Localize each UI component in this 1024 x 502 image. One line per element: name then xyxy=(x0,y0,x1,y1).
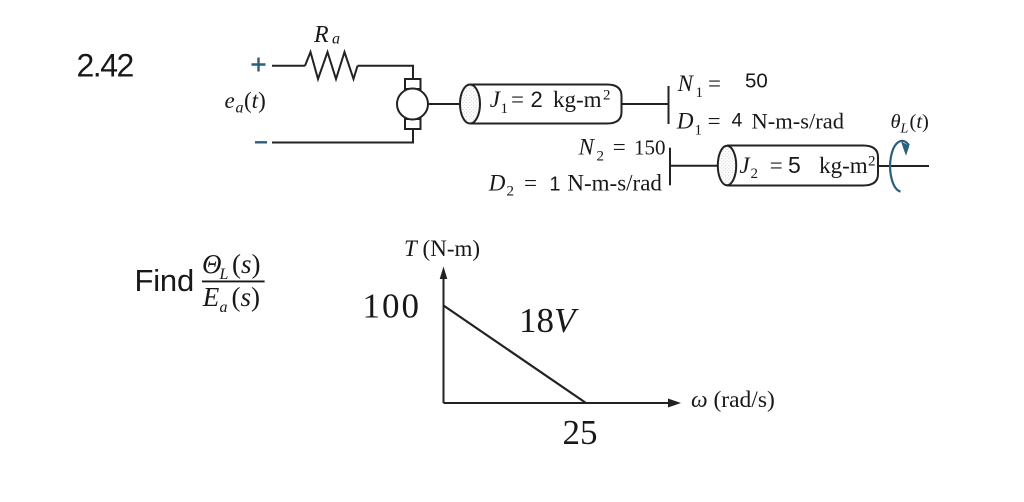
plus terminal xyxy=(252,58,266,72)
svg-text:100: 100 xyxy=(363,287,422,326)
inertia J1 cylinder body xyxy=(470,85,622,124)
motor brush bottom xyxy=(405,119,421,129)
inertia J2 cylinder body xyxy=(727,146,878,186)
svg-text:Find: Find xyxy=(135,263,195,298)
svg-text:N-m-s/rad: N-m-s/rad xyxy=(567,171,662,196)
svg-text:1: 1 xyxy=(549,174,560,196)
svg-text:50: 50 xyxy=(745,69,768,92)
svg-text:2: 2 xyxy=(531,87,543,112)
svg-text:ω (rad/s): ω (rad/s) xyxy=(691,387,775,413)
wire bottom xyxy=(272,129,413,143)
svg-text:D: D xyxy=(676,109,694,134)
svg-text:18V: 18V xyxy=(519,301,579,340)
svg-text:kg-m: kg-m xyxy=(819,153,868,178)
svg-text:N-m-s/rad: N-m-s/rad xyxy=(752,109,844,134)
shaft J1 to gear N1 xyxy=(622,103,669,105)
shaft J2 output xyxy=(878,165,929,167)
graph y axis xyxy=(443,277,445,403)
svg-text:25: 25 xyxy=(563,413,598,452)
motor brush top xyxy=(405,79,421,89)
wire top left xyxy=(272,65,305,67)
svg-text:=: = xyxy=(708,71,721,96)
inertia J1 end face xyxy=(460,85,480,124)
resistor Ra zigzag xyxy=(305,52,358,79)
svg-text:1: 1 xyxy=(501,101,509,117)
svg-text:L: L xyxy=(900,122,909,137)
svg-text:2.42: 2.42 xyxy=(77,48,134,84)
inertia J2 end face xyxy=(718,146,736,186)
svg-text:=: = xyxy=(708,109,721,134)
svg-text:1: 1 xyxy=(696,85,704,101)
svg-text:=: = xyxy=(524,171,537,196)
graph x axis xyxy=(444,402,669,404)
svg-text:1: 1 xyxy=(695,123,703,139)
svg-text:(s): (s) xyxy=(232,249,261,279)
svg-text:2: 2 xyxy=(507,184,515,200)
svg-text:a: a xyxy=(236,100,244,117)
svg-text:2: 2 xyxy=(603,88,611,104)
rotation arrow theta_L xyxy=(890,141,909,192)
svg-text:=: = xyxy=(511,87,524,112)
shaft gear N2 to J2 xyxy=(670,165,718,167)
svg-text:2: 2 xyxy=(751,166,759,182)
svg-text:N: N xyxy=(578,134,596,159)
svg-text:4: 4 xyxy=(732,109,743,131)
svg-text:a: a xyxy=(332,31,340,48)
svg-text:2: 2 xyxy=(597,149,605,165)
svg-text:150: 150 xyxy=(634,135,666,159)
fraction bar xyxy=(202,280,265,282)
torque-speed line xyxy=(444,306,587,404)
svg-text:5: 5 xyxy=(788,152,801,178)
svg-text:N: N xyxy=(677,71,695,96)
svg-text:T (N-m): T (N-m) xyxy=(404,236,480,261)
svg-text:=: = xyxy=(770,153,783,178)
wire top right to motor xyxy=(358,66,414,79)
minus terminal xyxy=(255,141,267,143)
svg-text:(s): (s) xyxy=(232,282,261,312)
svg-text:a: a xyxy=(220,299,228,316)
motor body circle xyxy=(397,89,428,120)
svg-text:2: 2 xyxy=(868,154,876,170)
svg-text:=: = xyxy=(613,134,626,159)
svg-text:R: R xyxy=(313,22,329,48)
gear N1 xyxy=(668,86,670,124)
svg-text:kg-m: kg-m xyxy=(553,87,602,112)
svg-text:e: e xyxy=(225,88,235,113)
svg-text:(t): (t) xyxy=(910,111,929,133)
svg-text:D: D xyxy=(488,171,506,196)
svg-text:E: E xyxy=(202,282,220,312)
svg-text:(t): (t) xyxy=(244,88,266,113)
svg-text:θ: θ xyxy=(891,111,901,133)
shaft motor to J1 xyxy=(428,103,461,105)
gear N2 xyxy=(669,148,671,186)
